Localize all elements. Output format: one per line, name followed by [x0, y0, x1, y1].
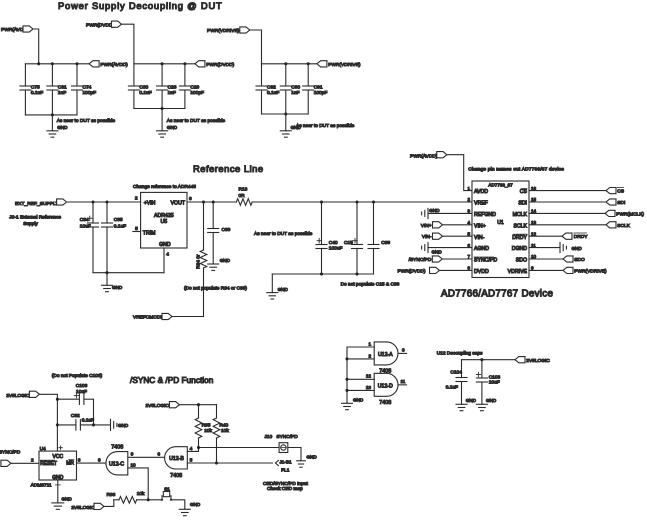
capacitor C39 — [208, 202, 231, 264]
pin 10 wire — [128, 462, 148, 499]
svg-text:12: 12 — [366, 374, 372, 379]
svg-text:2: 2 — [368, 353, 371, 358]
svg-text:VREF: VREF — [474, 201, 488, 207]
svg-text:GND: GND — [118, 423, 129, 428]
svg-text:RESET: RESET — [40, 461, 57, 467]
svg-text:VIN+: VIN+ — [421, 223, 432, 229]
ground — [157, 109, 178, 138]
svg-text:11: 11 — [401, 379, 406, 384]
svg-text:Reference Line: Reference Line — [193, 163, 264, 174]
svg-text:GND: GND — [167, 125, 178, 130]
svg-text:2: 2 — [31, 458, 34, 463]
ground — [342, 397, 364, 409]
flag VIN+ — [421, 222, 472, 229]
svg-text:PWR(AVDD): PWR(AVDD) — [410, 153, 438, 159]
wire — [171, 500, 185, 510]
wire — [67, 200, 141, 203]
wire — [11, 458, 39, 464]
svg-text:100pF: 100pF — [190, 90, 204, 96]
resistor R34 — [195, 202, 206, 317]
pin 4 VIN+ — [467, 220, 485, 229]
pin 10 SDO — [516, 254, 537, 263]
pin 12 DRDY — [512, 231, 536, 240]
resistor R35 — [195, 405, 212, 448]
svg-text:C34: C34 — [80, 217, 89, 223]
wire bottom bus — [25, 113, 77, 116]
svg-text:C90: C90 — [291, 85, 300, 91]
section title: Power Supply Decoupling @ DUT — [58, 0, 223, 11]
svg-text:2: 2 — [467, 197, 470, 202]
pin 4 wire — [187, 446, 198, 451]
IC U4 ADM6711 — [31, 446, 77, 489]
pin 7 SYNC/PD — [467, 254, 497, 263]
pin 11 DGND — [512, 243, 536, 252]
svg-text:10uF: 10uF — [76, 389, 87, 395]
ground — [297, 455, 318, 468]
pin 6 AGND — [467, 243, 489, 252]
ground at AGND pin 6 — [422, 243, 472, 255]
wire — [288, 448, 301, 461]
wire — [104, 500, 114, 507]
svg-text:13: 13 — [366, 385, 372, 390]
svg-text:VIN-: VIN- — [422, 234, 432, 240]
pin 13 SCLK — [513, 220, 536, 229]
ground — [267, 274, 289, 299]
svg-text:VDRIVE: VDRIVE — [508, 269, 528, 275]
svg-text:SDO: SDO — [574, 257, 585, 263]
pin 2 VREF — [467, 197, 487, 206]
svg-text:R35: R35 — [202, 422, 211, 428]
capacitor C34 — [80, 202, 99, 273]
svg-text:10uF: 10uF — [80, 223, 91, 229]
svg-text:PWR(AVDD): PWR(AVDD) — [100, 62, 128, 68]
pin 4 wire — [164, 248, 169, 273]
svg-text:4: 4 — [190, 446, 193, 451]
flag SCLK — [529, 222, 631, 229]
pin 6 — [189, 196, 192, 202]
pin 12 wire — [345, 374, 374, 381]
wire — [179, 403, 216, 406]
capacitor C40 — [316, 202, 342, 274]
connector J10 SYNC/PD — [264, 434, 298, 452]
svg-text:Change pin names out AD7766/67: Change pin names out AD7766/67 device — [468, 167, 564, 173]
svg-text:GND: GND — [159, 242, 171, 248]
flag PWR(VDRIVE) (output) — [317, 61, 361, 68]
svg-text:Power Supply Decoupling @ DUT: Power Supply Decoupling @ DUT — [58, 0, 223, 11]
pin 15 SDI — [518, 197, 536, 206]
ground — [102, 273, 123, 292]
svg-text:MR: MR — [66, 461, 74, 467]
svg-text:1nF: 1nF — [291, 90, 299, 96]
svg-text:C75: C75 — [31, 85, 40, 91]
flag 2V5LOGIC — [71, 503, 104, 511]
wire bottom bus — [262, 112, 309, 115]
resistor R13 — [236, 186, 252, 205]
capacitor C103 — [476, 360, 500, 405]
svg-text:GND: GND — [190, 502, 201, 507]
flag DRDY — [529, 233, 588, 240]
svg-text:10k: 10k — [204, 428, 212, 434]
svg-text:CS: CS — [520, 189, 528, 195]
svg-text:C104: C104 — [450, 369, 462, 375]
ground at DGND pin 11 — [529, 243, 582, 253]
svg-text:VREFCMODE: VREFCMODE — [133, 315, 164, 321]
svg-text:SYNC/PD: SYNC/PD — [474, 258, 497, 264]
svg-text:1: 1 — [368, 341, 371, 346]
svg-text:REFGND: REFGND — [474, 212, 496, 218]
AND gate U12-C 7408 — [106, 444, 128, 475]
svg-text:PWR(DVDD): PWR(DVDD) — [398, 268, 426, 274]
svg-text:0.1uF: 0.1uF — [31, 90, 43, 96]
svg-text:6: 6 — [158, 451, 161, 456]
svg-text:C35: C35 — [114, 217, 123, 223]
svg-text:SCLK: SCLK — [617, 223, 630, 229]
note text — [57, 118, 116, 124]
svg-text:GND: GND — [353, 397, 364, 402]
wire reference line to U1 VREF — [252, 200, 472, 203]
svg-text:1: 1 — [467, 186, 470, 191]
svg-text:TRIM: TRIM — [143, 231, 156, 237]
svg-text:C32: C32 — [71, 413, 80, 419]
flag SDO — [529, 256, 585, 263]
svg-text:GND: GND — [307, 455, 318, 460]
note text — [468, 167, 564, 173]
flag 2V5LOGIC — [6, 391, 39, 399]
svg-text:100pF: 100pF — [83, 90, 97, 96]
pin 1 wire — [347, 341, 374, 403]
pin 2 wire — [345, 353, 374, 360]
svg-text:C103: C103 — [489, 374, 501, 380]
flag 2V5LOGIC — [146, 402, 180, 410]
svg-text:VCC: VCC — [53, 454, 64, 460]
flag /SYNC/PD — [409, 256, 472, 263]
svg-text:7408: 7408 — [111, 444, 123, 450]
svg-text:SDI: SDI — [617, 200, 625, 206]
wire — [462, 358, 516, 361]
svg-text:2V5LOGIC: 2V5LOGIC — [71, 505, 95, 511]
svg-text:1nF: 1nF — [168, 90, 176, 96]
svg-text:PWR(VDRIVE): PWR(VDRIVE) — [207, 28, 240, 34]
svg-text:C92: C92 — [267, 85, 276, 91]
ground at REFGND pin 3 — [422, 208, 472, 218]
svg-text:Check CED map: Check CED map — [267, 486, 303, 492]
svg-text:DRDY: DRDY — [574, 234, 588, 240]
svg-text:GND: GND — [278, 287, 289, 292]
svg-text:0R: 0R — [239, 193, 246, 199]
svg-text:9: 9 — [131, 452, 134, 457]
wire — [250, 30, 262, 64]
note text J3-1 — [9, 215, 61, 227]
pin 2 — [135, 196, 138, 202]
svg-text:J10: J10 — [264, 434, 272, 440]
svg-text:J3-1 External Reference: J3-1 External Reference — [9, 215, 61, 221]
svg-text:SYNC/PD: SYNC/PD — [276, 434, 298, 440]
pin 14 MCLK — [513, 209, 537, 218]
svg-text:Change reference to ADR445: Change reference to ADR445 — [133, 184, 196, 190]
svg-text:SDO: SDO — [516, 258, 527, 264]
capacitor C92 — [256, 64, 279, 114]
AND gate U12-D 7408 — [374, 373, 398, 406]
capacitor C91 — [303, 64, 328, 114]
capacitor C29 — [179, 64, 204, 109]
flag CS — [529, 187, 624, 194]
switch S1 — [161, 486, 172, 501]
svg-text:As near to DUT as possible: As near to DUT as possible — [254, 231, 313, 237]
pin 9 VDRIVE — [508, 266, 534, 275]
regulator U5 ADR425 — [141, 192, 187, 248]
svg-text:CS: CS — [617, 189, 624, 195]
svg-text:6: 6 — [189, 196, 192, 202]
wire bottom bus — [272, 272, 373, 275]
ground — [456, 398, 477, 411]
wire — [39, 394, 59, 451]
svg-text:2: 2 — [135, 196, 138, 202]
svg-text:Supply: Supply — [23, 221, 38, 227]
flag VIN- — [422, 233, 472, 240]
svg-text:0.1uF: 0.1uF — [267, 90, 279, 96]
wire — [122, 24, 134, 64]
ground — [179, 502, 201, 516]
svg-text:SCLK: SCLK — [513, 223, 527, 229]
svg-text:C40: C40 — [329, 240, 338, 246]
svg-text:PWR(VDRIVE): PWR(VDRIVE) — [328, 62, 361, 68]
svg-text:/SYNC/PD: /SYNC/PD — [409, 257, 432, 263]
svg-text:2V5LOGIC: 2V5LOGIC — [6, 393, 30, 399]
svg-text:10uF: 10uF — [489, 380, 500, 386]
AND gate U12-A 7408 — [374, 342, 398, 375]
flag PWR(VDRIVE) — [529, 267, 607, 274]
svg-text:U12-D: U12-D — [378, 384, 393, 390]
svg-text:R33: R33 — [107, 492, 116, 498]
svg-text:GND: GND — [572, 246, 583, 251]
note text — [167, 118, 226, 124]
svg-text:2V5LOGIC: 2V5LOGIC — [526, 358, 550, 364]
svg-text:C31: C31 — [58, 85, 67, 91]
svg-text:C38: C38 — [381, 240, 390, 246]
svg-text:As near to DUT as possible: As near to DUT as possible — [57, 118, 116, 124]
flag PWR(VDRIVE) (input) — [207, 27, 250, 34]
svg-text:+VIN: +VIN — [144, 200, 156, 206]
wire U4 to U12-C — [77, 457, 106, 463]
capacitor C28 — [157, 64, 177, 109]
flag VREFCMODE — [133, 313, 172, 320]
svg-text:(Do not Populate C106): (Do not Populate C106) — [52, 373, 103, 379]
svg-text:100pF: 100pF — [314, 90, 328, 96]
svg-text:R40: R40 — [219, 422, 228, 428]
svg-text:0.1uF: 0.1uF — [114, 223, 126, 229]
wire to J10 — [197, 446, 279, 449]
svg-text:(Do not populate R34 or C39): (Do not populate R34 or C39) — [184, 285, 247, 291]
svg-text:PWR(VDRIVE): PWR(VDRIVE) — [574, 268, 607, 274]
svg-text:PWR(DVDD): PWR(DVDD) — [206, 62, 234, 68]
ground — [111, 419, 129, 430]
svg-text:7408: 7408 — [379, 400, 391, 406]
svg-text:SDI: SDI — [518, 201, 527, 207]
svg-text:VIN-: VIN- — [474, 235, 485, 241]
ground — [280, 114, 301, 137]
svg-text:2V5LOGIC: 2V5LOGIC — [146, 403, 170, 409]
connector J1-B1 FL1 — [275, 460, 292, 474]
wire — [33, 29, 39, 64]
svg-text:As near to DUT as possible: As near to DUT as possible — [167, 118, 226, 124]
svg-text:U4: U4 — [40, 446, 46, 452]
capacitor C30 — [128, 64, 151, 109]
svg-text:CED/SYNC/PD Input: CED/SYNC/PD Input — [263, 481, 308, 487]
svg-text:C28: C28 — [168, 85, 177, 91]
svg-text:DRDY: DRDY — [512, 235, 527, 241]
pin 1 AVDD — [467, 186, 488, 195]
svg-text:S1: S1 — [164, 486, 170, 491]
svg-text:AD7766/AD7767 Device: AD7766/AD7767 Device — [441, 289, 553, 300]
svg-text:ADR425: ADR425 — [154, 213, 174, 219]
capacitor C38 — [368, 202, 390, 274]
note text U12 Decoupling caps — [437, 350, 483, 356]
resistor R33 — [107, 491, 163, 503]
wire — [447, 155, 472, 191]
section title: /SYNC & /PD Function — [130, 376, 214, 385]
svg-text:EXT_REF_SUPPLY: EXT_REF_SUPPLY — [15, 201, 59, 207]
svg-text:DVDD: DVDD — [474, 269, 489, 275]
svg-text:J1-B1: J1-B1 — [280, 460, 292, 465]
wire VOUT — [187, 200, 236, 203]
svg-text:GND: GND — [112, 285, 123, 290]
wire top bus — [134, 62, 195, 65]
svg-text:U12-C: U12-C — [109, 462, 124, 468]
svg-text:MCLK: MCLK — [513, 212, 528, 218]
flag PWR(DVDD) (input) — [86, 21, 122, 28]
wire top bus — [262, 62, 317, 65]
svg-text:C29: C29 — [190, 85, 199, 91]
svg-text:U12-B: U12-B — [169, 456, 184, 462]
pin 5 VIN- — [467, 231, 484, 240]
svg-text:GND: GND — [220, 258, 231, 263]
flag PWR(AVDD) (output) — [89, 61, 128, 68]
svg-text:As near to DUT as possible: As near to DUT as possible — [296, 123, 355, 129]
flag PWR(AVDD) (input) — [1, 26, 33, 33]
svg-text:VOUT: VOUT — [171, 200, 186, 206]
svg-text:U12-A: U12-A — [378, 352, 393, 358]
svg-text:1nF: 1nF — [58, 90, 66, 96]
svg-text:0.1uF: 0.1uF — [139, 90, 151, 96]
pin 8 DVDD — [467, 266, 489, 275]
svg-text:R13: R13 — [239, 186, 248, 192]
svg-text:GND: GND — [57, 125, 68, 130]
wire — [93, 399, 95, 425]
svg-text:5: 5 — [135, 226, 138, 232]
wire — [172, 316, 204, 318]
pin 3 output — [398, 348, 407, 354]
wire bottom bus — [93, 271, 164, 274]
ground — [208, 258, 231, 270]
flag PWR(DVDD) (output) — [195, 61, 235, 68]
power + mark — [59, 446, 63, 450]
capacitor C32 — [57, 413, 110, 430]
svg-text:C106: C106 — [76, 383, 88, 389]
svg-text:C30: C30 — [139, 85, 148, 91]
note text — [184, 285, 247, 291]
svg-text:U5: U5 — [160, 219, 167, 225]
svg-text:FL1: FL1 — [281, 467, 290, 473]
pin 5 wire — [187, 458, 272, 465]
svg-text:C74: C74 — [83, 85, 92, 91]
note text — [296, 123, 355, 129]
svg-text:4: 4 — [166, 252, 169, 258]
pin 3 REFGND — [467, 209, 496, 218]
pin 11 output — [398, 379, 407, 385]
flag 2V5LOGIC — [515, 357, 550, 364]
svg-text:GND: GND — [429, 208, 440, 213]
note text — [254, 231, 313, 237]
capacitor C74 — [72, 64, 97, 115]
IC U1 AD7766_67 — [472, 181, 529, 278]
svg-text:5: 5 — [190, 458, 193, 463]
pin 9 wire — [128, 451, 165, 457]
note text — [341, 281, 400, 287]
svg-text:U1: U1 — [497, 220, 504, 226]
capacitor C15 — [344, 202, 363, 274]
svg-text:3: 3 — [402, 348, 405, 353]
note text — [52, 373, 103, 379]
svg-text:7408: 7408 — [170, 473, 182, 479]
svg-text:GND: GND — [62, 496, 73, 501]
flag EXT_REF_SUPPLY — [15, 199, 67, 207]
svg-text:GND: GND — [466, 398, 477, 403]
svg-text:100uF: 100uF — [329, 245, 343, 251]
svg-text:10k: 10k — [137, 491, 145, 497]
flag PWR(DVDD) — [398, 267, 472, 274]
capacitor C75 — [20, 64, 43, 115]
note text — [263, 481, 308, 492]
AND gate U12-B 7408 — [165, 447, 188, 480]
ground — [47, 115, 68, 137]
flag PWR(MCLK) — [529, 210, 644, 217]
svg-text:ADM6711: ADM6711 — [31, 483, 52, 489]
ground — [476, 398, 496, 411]
svg-text:10: 10 — [131, 462, 137, 467]
svg-text:C39: C39 — [222, 227, 231, 233]
svg-text:8: 8 — [98, 457, 101, 462]
flag /SYNC/PD input — [0, 450, 21, 467]
pin 16 CS — [520, 186, 537, 195]
svg-text:/SYNC & /PD Function: /SYNC & /PD Function — [130, 376, 214, 385]
svg-text:PWR(MCLK): PWR(MCLK) — [616, 211, 644, 217]
wire top bus — [25, 62, 89, 65]
resistor R40 — [213, 405, 229, 463]
svg-text:PWR(DVDD): PWR(DVDD) — [86, 22, 114, 28]
pin 13 wire — [345, 385, 374, 392]
svg-text:U12 Decoupling caps: U12 Decoupling caps — [437, 350, 483, 356]
svg-text:C91: C91 — [314, 85, 323, 91]
svg-text:/SYNC/PD: /SYNC/PD — [0, 450, 21, 456]
svg-text:AGND: AGND — [474, 246, 489, 252]
capacitor C31 — [47, 64, 67, 115]
svg-text:3: 3 — [78, 458, 81, 463]
section title: AD7766/AD7767 Device — [441, 289, 553, 300]
capacitor C35 — [102, 202, 127, 273]
svg-text:R34 0r: R34 0r — [195, 254, 201, 269]
flag PWR(AVDD) — [410, 152, 447, 160]
wire bottom bus — [134, 107, 185, 110]
section title: Reference Line — [193, 163, 264, 174]
svg-text:GND: GND — [432, 250, 443, 255]
svg-text:C15: C15 — [344, 240, 353, 246]
svg-text:GND: GND — [486, 398, 497, 403]
capacitor C104 — [446, 360, 467, 405]
capacitor C106 — [57, 383, 93, 405]
svg-text:Do not populate C15 & C38: Do not populate C15 & C38 — [341, 281, 400, 287]
svg-text:10k: 10k — [221, 428, 229, 434]
note text — [133, 184, 196, 190]
